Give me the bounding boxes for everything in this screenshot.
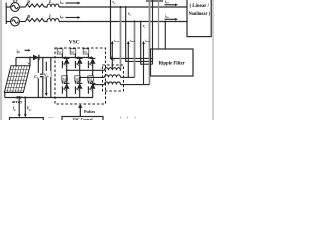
svg-text:R: R xyxy=(27,0,30,4)
ripple filter wire c xyxy=(164,22,166,50)
sense wire V_pv xyxy=(24,98,32,118)
svg-text:VSC: VSC xyxy=(69,39,80,45)
phase wire b (top line) xyxy=(59,6,187,8)
current arrow i_sb xyxy=(60,14,81,20)
bridge output wire row b xyxy=(80,76,105,78)
diode D1 xyxy=(33,55,39,61)
control box (VSC control) xyxy=(62,117,103,127)
figure left border (decorative) xyxy=(0,0,2,120)
VSC output wire phase a (grey) xyxy=(120,7,122,70)
node dot Ipv tap xyxy=(18,97,20,99)
switch S5 xyxy=(83,49,95,85)
PV bottom stub xyxy=(4,93,6,98)
cropped phase-a wire stub xyxy=(146,0,163,2)
label i_pv with arrow xyxy=(17,48,31,54)
wire source2 to resistor xyxy=(19,21,25,23)
svg-text:i: i xyxy=(135,116,136,120)
current arrow i_sa xyxy=(60,0,81,5)
capacitor Cdc xyxy=(40,58,47,98)
node dot ripple c tap xyxy=(164,21,166,23)
bridge output wire row a xyxy=(67,69,105,71)
neutral bus wire (left bracket) xyxy=(6,3,10,25)
voltage sense wire v_c xyxy=(141,22,153,65)
switch S2 xyxy=(88,76,96,98)
resistor Rs2 xyxy=(26,18,45,21)
pulses arrow into VSC xyxy=(78,104,83,116)
voltage sense wire v_a xyxy=(111,0,153,58)
voltage arrow V_dc xyxy=(43,62,50,97)
switch S3 xyxy=(70,49,82,78)
DC rail bottom xyxy=(5,97,93,99)
svg-text:( Linear /: ( Linear / xyxy=(189,2,209,9)
inductor Lr,c xyxy=(105,82,121,85)
node dot VSC a tap xyxy=(120,6,122,8)
node dot v_b tap xyxy=(125,6,127,8)
sense wire I_pv xyxy=(12,98,21,118)
cropped load current sense labels iL (grey) xyxy=(120,116,136,120)
DC link wire to VSC xyxy=(50,58,52,98)
node dot leg b xyxy=(79,77,81,79)
current arrow i_vsc,c xyxy=(142,39,150,85)
svg-text:array: array xyxy=(12,99,23,104)
wire source1 to resistor xyxy=(19,6,25,8)
svg-text:S5: S5 xyxy=(84,50,88,54)
svg-text:Lr: Lr xyxy=(110,57,116,62)
wire coil c to riser xyxy=(121,84,150,86)
AC source Vs1 xyxy=(11,3,20,12)
svg-text:L: L xyxy=(48,0,52,4)
phase wire c (second line) xyxy=(59,21,187,23)
svg-text:Pulses: Pulses xyxy=(84,109,96,114)
bridge output wire row c xyxy=(93,84,105,86)
load current arrow i_Lb xyxy=(165,15,179,21)
ripple filter box xyxy=(151,49,194,76)
inductor Ls2 xyxy=(44,19,59,22)
svg-text:R: R xyxy=(27,14,30,19)
svg-text:S1: S1 xyxy=(58,50,62,54)
cropped label mark above source 1 xyxy=(13,0,17,2)
wire coil a to riser xyxy=(120,69,122,71)
svg-text:S6: S6 xyxy=(75,77,79,81)
ripple filter wire a xyxy=(152,0,154,64)
bridge top bus xyxy=(60,57,93,59)
svg-text:VSC Control: VSC Control xyxy=(72,118,92,120)
PV array panel xyxy=(4,66,30,93)
node dot VSC b tap xyxy=(134,21,136,23)
figure right border (decorative) xyxy=(212,0,214,120)
svg-text:S4: S4 xyxy=(62,77,66,81)
AC source Vs2 xyxy=(11,17,20,26)
MPPT box xyxy=(10,118,44,126)
switch S4 xyxy=(62,70,70,97)
svg-text:i: i xyxy=(127,116,128,120)
DC link wire (inner) xyxy=(37,58,39,98)
svg-text:Ripple Filter: Ripple Filter xyxy=(159,61,186,66)
VSC output wire phase c (grey) xyxy=(149,0,151,85)
load current arrow i_La xyxy=(165,0,179,6)
load box Loads (Linear/Nonlinear) xyxy=(187,0,211,37)
current arrow i_vsc,a xyxy=(111,39,120,71)
svg-text:Nonlinear ): Nonlinear ) xyxy=(188,10,210,17)
node dot leg a xyxy=(66,69,68,71)
node dot PV+ on rail xyxy=(29,57,31,59)
svg-text:S3: S3 xyxy=(71,50,75,54)
ripple filter wire b (grey) xyxy=(158,0,160,49)
svg-text:i: i xyxy=(120,116,121,120)
wire coil b to riser xyxy=(121,76,135,78)
DC rail top xyxy=(16,57,60,59)
resistor Rs1 xyxy=(26,4,45,7)
switch S1 xyxy=(57,49,69,71)
IGBT slant strokes (all switches) xyxy=(62,57,92,91)
PV top-right wire xyxy=(29,58,31,67)
voltage sense wire v_b xyxy=(126,7,153,61)
inductor Lr,a xyxy=(105,68,121,71)
VSC output wire phase b (grey) xyxy=(134,22,136,78)
node dot v_c tap xyxy=(140,21,142,23)
svg-text:L: L xyxy=(48,13,52,18)
node dot leg c xyxy=(92,84,94,86)
VSC dashed enclosure xyxy=(55,48,106,104)
Lr dashed enclosure xyxy=(103,65,124,91)
label Cdc xyxy=(34,73,40,80)
PV top-left wire xyxy=(15,58,17,67)
cropped grey mark near MPPT xyxy=(48,117,54,119)
inductor Ls1 xyxy=(44,4,59,7)
current arrow i_vsc,b xyxy=(127,39,136,78)
switch S6 xyxy=(75,76,83,98)
inductor Lr,b xyxy=(105,75,121,78)
